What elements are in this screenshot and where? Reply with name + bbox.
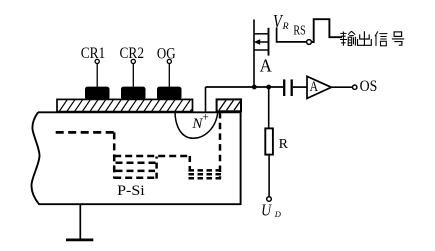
electrode CR1 (black gate): [85, 87, 110, 100]
transistor Q1 source/drain bus: [253, 20, 255, 88]
OS label: [360, 78, 378, 95]
RS terminal circle: [307, 40, 312, 45]
potential profile dashed: well2 charge row 2: [189, 173, 222, 176]
resistor R label: [279, 137, 289, 152]
label 输出信号: char 信: [375, 31, 387, 46]
coupling capacitor: [284, 79, 292, 96]
potential profile dashed: well2 bottom: [189, 177, 222, 180]
svg-text:RS: RS: [293, 24, 305, 39]
svg-text:R: R: [279, 137, 289, 152]
P-Si label: [117, 183, 145, 199]
transistor Q1 gate: [277, 28, 307, 42]
U_D label: [261, 200, 282, 219]
potential profile dashed: well2 charge row 1: [189, 169, 222, 172]
N+ label: [191, 112, 208, 132]
transistor Q1 channel bar: [268, 28, 270, 56]
transistor Q1 source stub: [254, 49, 269, 51]
wire amp to OS: [331, 86, 352, 88]
CR1 terminal circle: [95, 59, 99, 63]
wire resistor to UD terminal: [268, 155, 270, 197]
potential profile dashed: well1 right wall: [155, 157, 158, 179]
potential profile dashed: right wall up to N+: [219, 112, 222, 178]
contact oxide box (hatched): [217, 99, 241, 111]
potential profile dashed: well1 charge row 2: [116, 162, 158, 165]
svg-text:A: A: [260, 56, 273, 76]
label 输出信号: char 号: [392, 32, 404, 45]
potential profile dashed: well1 charge row 3: [116, 170, 156, 173]
wire capacitor to amp: [293, 86, 308, 88]
label 输出信号: char 出: [358, 31, 372, 45]
OG label: [157, 45, 176, 62]
RS label: [293, 24, 305, 39]
CR1 label: [81, 45, 106, 62]
svg-text:U: U: [261, 200, 272, 219]
CR2 lead wire: [132, 64, 134, 87]
oxide layer (hatched strip): [57, 99, 193, 111]
potential profile dashed: well2 left wall: [189, 156, 192, 171]
CR1 lead wire: [96, 64, 98, 87]
N+ diffusion region arc: [175, 112, 218, 138]
CR2 label: [120, 45, 145, 62]
svg-text:CR1: CR1: [81, 45, 106, 62]
ground: [66, 204, 93, 240]
junction dot (resistor branch): [266, 85, 271, 90]
node A wire: [206, 86, 284, 88]
P-Si substrate body: [31, 112, 240, 204]
electrode CR2 (black gate): [121, 87, 146, 100]
amplifier label A: [310, 79, 319, 95]
node A label: [260, 56, 273, 76]
amplifier A: [307, 76, 331, 98]
svg-text:P-Si: P-Si: [117, 183, 145, 199]
transistor Q1 drain stub: [254, 33, 269, 35]
resistor R: [265, 128, 273, 154]
svg-text:D: D: [274, 209, 282, 219]
potential profile dashed: charge level row 1 / mid ledge: [114, 155, 190, 158]
svg-text:A: A: [310, 79, 319, 95]
svg-text:OG: OG: [157, 45, 176, 62]
RS pulse waveform: [312, 19, 343, 42]
potential profile dashed: upper ledge left: [56, 131, 114, 134]
svg-text:OS: OS: [360, 78, 378, 95]
electrode OG (black gate): [157, 87, 182, 100]
V_R label: [273, 12, 289, 33]
junction dot (transistor source): [252, 85, 257, 90]
N+ contact via: [205, 87, 207, 113]
OG terminal circle: [167, 59, 171, 63]
potential profile dashed: well1 bottom: [114, 176, 157, 179]
OG lead wire: [168, 64, 170, 87]
OS terminal circle: [353, 85, 357, 89]
svg-text:R: R: [282, 21, 289, 32]
U_D terminal circle: [267, 197, 272, 202]
label 输出信号 (hand-drawn glyphs): char 输: [340, 31, 355, 46]
wire node A to resistor: [268, 87, 270, 128]
transistor Q1 body stub with arrow: [254, 39, 269, 45]
potential profile dashed: left well wall: [113, 132, 116, 178]
svg-text:+: +: [202, 112, 209, 124]
CR2 terminal circle: [131, 59, 135, 63]
svg-text:CR2: CR2: [120, 45, 145, 62]
